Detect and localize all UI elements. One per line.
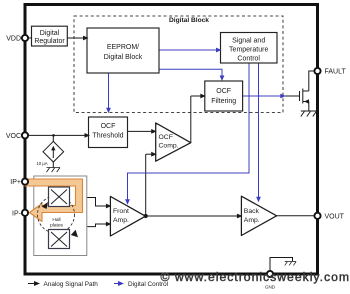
- svg-text:plates: plates: [50, 223, 63, 229]
- svg-text:Hall: Hall: [52, 217, 60, 223]
- svg-text:Amp.: Amp.: [113, 217, 129, 224]
- svg-text:Digital: Digital: [40, 30, 60, 37]
- svg-text:EEPROM/: EEPROM/: [107, 44, 139, 51]
- svg-text:Analog Signal Path: Analog Signal Path: [44, 281, 99, 288]
- svg-text:IP-: IP-: [12, 210, 22, 217]
- svg-text:IP+: IP+: [10, 179, 21, 186]
- svg-text:Temperature: Temperature: [229, 47, 268, 54]
- svg-text:VDD: VDD: [6, 36, 21, 43]
- svg-text:Digital Block: Digital Block: [104, 54, 143, 61]
- svg-text:Signal and: Signal and: [232, 38, 265, 45]
- svg-text:OCF: OCF: [101, 123, 116, 130]
- svg-text:10 µA: 10 µA: [36, 161, 47, 166]
- svg-text:Comp.: Comp.: [159, 143, 179, 150]
- svg-text:GND: GND: [265, 285, 276, 290]
- svg-text:Back: Back: [244, 208, 260, 215]
- svg-text:VOC: VOC: [6, 133, 21, 140]
- svg-text:OCF: OCF: [216, 88, 231, 95]
- svg-text:OCF: OCF: [159, 134, 173, 141]
- svg-text:© www.electronicsweekly.com: © www.electronicsweekly.com: [161, 270, 350, 284]
- svg-text:Control: Control: [237, 56, 260, 63]
- svg-text:Threshold: Threshold: [92, 133, 123, 140]
- svg-text:Amp.: Amp.: [244, 217, 260, 224]
- svg-text:Digital Block: Digital Block: [169, 17, 209, 24]
- svg-text:Filtering: Filtering: [211, 98, 236, 105]
- svg-text:VOUT: VOUT: [325, 213, 345, 220]
- svg-text:Regulator: Regulator: [34, 38, 65, 45]
- svg-text:Front: Front: [113, 208, 129, 215]
- svg-text:FAULT: FAULT: [325, 69, 347, 76]
